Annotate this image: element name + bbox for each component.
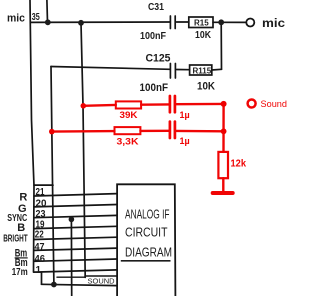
svg-text:CIRCUIT: CIRCUIT [125,225,168,240]
svg-text:Sound: Sound [261,99,288,110]
svg-text:B: B [17,222,25,234]
svg-text:C31: C31 [148,2,164,13]
svg-text:1µ: 1µ [180,110,190,120]
svg-text:C125: C125 [146,53,171,65]
svg-text:17m: 17m [12,267,28,278]
svg-text:BRIGHT: BRIGHT [3,234,28,245]
svg-text:20: 20 [36,198,47,209]
svg-text:22: 22 [35,230,44,241]
svg-text:1: 1 [36,265,42,276]
svg-text:SOUND: SOUND [88,277,116,286]
svg-text:47: 47 [35,242,45,253]
svg-text:100nF: 100nF [140,31,166,42]
svg-text:R: R [19,191,27,203]
svg-text:35: 35 [32,12,40,23]
svg-text:mic: mic [262,16,285,30]
svg-text:R115: R115 [193,67,212,76]
svg-text:mic: mic [7,13,25,25]
svg-text:39K: 39K [120,110,139,120]
svg-text:R15: R15 [194,19,209,28]
svg-text:12k: 12k [231,158,247,169]
svg-text:21: 21 [36,187,45,198]
svg-text:ANALOG IF: ANALOG IF [125,207,170,222]
svg-text:1µ: 1µ [180,136,190,146]
svg-text:100nF: 100nF [140,82,169,94]
svg-text:DIAGRAM: DIAGRAM [125,245,172,260]
svg-text:10K: 10K [197,81,215,93]
svg-text:10K: 10K [195,30,212,41]
svg-text:3,3K: 3,3K [117,137,140,147]
svg-text:23: 23 [36,209,46,220]
svg-text:46: 46 [35,254,46,265]
